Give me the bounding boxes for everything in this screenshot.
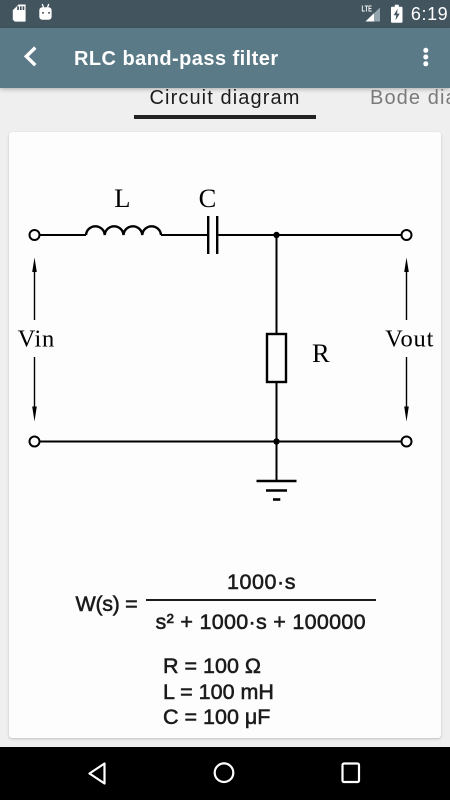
node B junction dot (273, 438, 279, 444)
status bar (0, 0, 450, 28)
wire resistor to node B (276, 382, 278, 442)
label R (312, 338, 330, 368)
node A junction dot (273, 232, 279, 238)
nav recents square (343, 764, 360, 783)
status bar icons SVG (0, 0, 450, 28)
signal triangle (366, 8, 381, 22)
fraction denominator (156, 610, 366, 635)
value C = 100 uF (163, 705, 270, 730)
ground symbol (257, 481, 297, 500)
Vout arrow down (404, 357, 409, 422)
svg-text:L: L (114, 183, 130, 213)
app bar title (74, 48, 279, 71)
bottom wire left to node B (40, 441, 277, 443)
wire node A down to resistor (276, 235, 278, 334)
wire capacitor to node A (218, 234, 276, 236)
resistor R body (267, 334, 286, 382)
label L (114, 183, 130, 213)
wire node A to top-right terminal (277, 234, 402, 236)
terminal circle bottom-left (30, 437, 40, 447)
value R = 100 Ohm (163, 654, 261, 679)
wire top-left to inductor (40, 234, 86, 236)
svg-text:C: C (199, 183, 217, 213)
label Vout (385, 326, 434, 353)
navigation bar (0, 747, 450, 800)
capacitor C plates (208, 216, 217, 254)
battery icon (391, 5, 403, 23)
label C (199, 183, 217, 213)
value L = 100 mH (163, 680, 274, 705)
back chevron (0, 28, 450, 87)
svg-text:Vin: Vin (18, 326, 55, 353)
terminal circle top-left (30, 230, 40, 240)
fraction numerator (227, 570, 296, 595)
tab: Circuit diagram (150, 87, 301, 110)
fraction bar (146, 599, 376, 601)
inductor L (86, 226, 161, 235)
Vin arrow up (32, 258, 37, 321)
svg-text:Vout: Vout (385, 326, 434, 353)
Vout arrow up (404, 258, 409, 321)
transfer function W(s) (76, 592, 138, 617)
Vin arrow down (32, 357, 37, 422)
nav back triangle (90, 764, 105, 784)
label Vin (18, 326, 55, 353)
nav home circle (215, 763, 234, 782)
svg-text:R: R (312, 338, 330, 368)
tab underline (134, 115, 316, 119)
wire inductor to capacitor (161, 234, 207, 236)
terminal circle bottom-right (402, 437, 412, 447)
bottom wire node B to right terminal (277, 441, 402, 443)
overflow menu dots (423, 48, 428, 67)
adb android head icon (39, 4, 51, 20)
wire node B to ground (276, 442, 278, 482)
sd card icon (13, 5, 26, 22)
app bar (0, 28, 450, 88)
white card (9, 132, 441, 738)
terminal circle top-right (402, 230, 412, 240)
